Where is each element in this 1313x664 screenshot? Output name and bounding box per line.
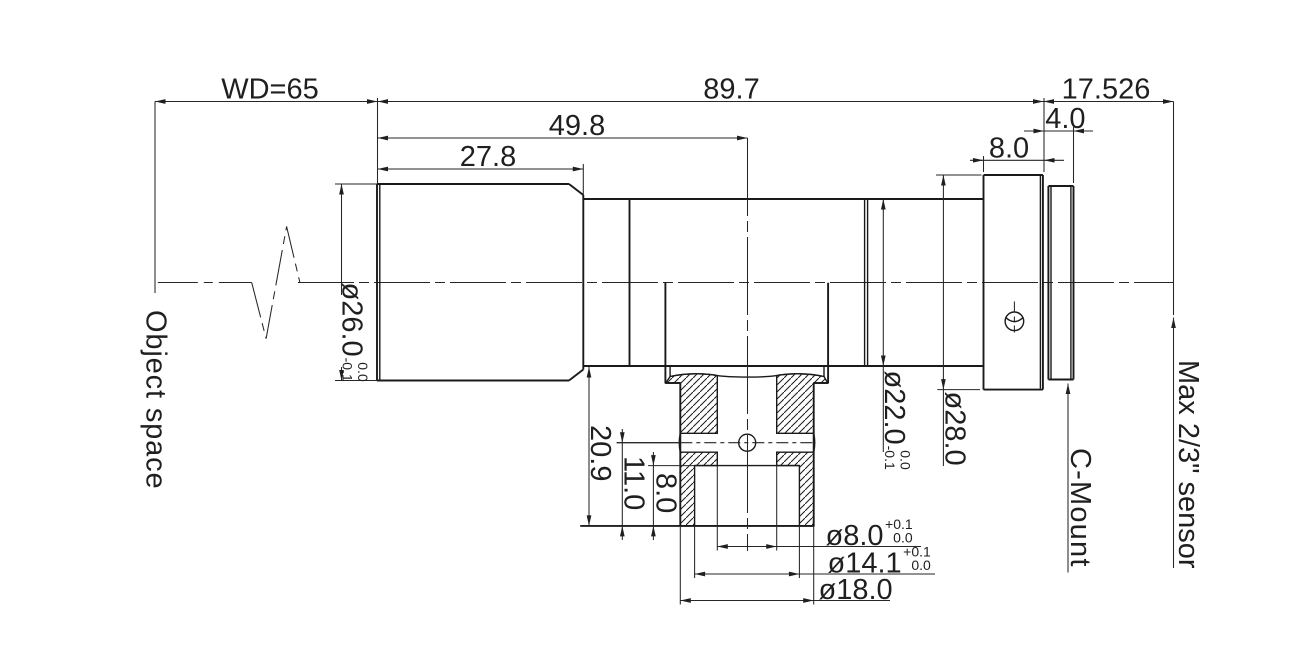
svg-text:20.9: 20.9 bbox=[584, 425, 616, 481]
svg-text:ø22.00.0-0.1: ø22.00.0-0.1 bbox=[878, 371, 914, 470]
svg-text:4.0: 4.0 bbox=[1045, 103, 1085, 135]
cross hole bores in boss bbox=[679, 433, 815, 452]
main tube bbox=[583, 199, 983, 366]
svg-text:ø18.0: ø18.0 bbox=[819, 574, 893, 606]
boss vertical centerline bbox=[747, 138, 749, 551]
svg-text:49.8: 49.8 bbox=[549, 110, 605, 142]
dimension 49.8 bbox=[378, 110, 748, 142]
Max 2/3 sensor leader arrow bbox=[1171, 318, 1176, 329]
dimension dia 18.0 bbox=[680, 574, 892, 606]
boss intersection curve bbox=[670, 374, 824, 377]
cross hole axis bbox=[617, 442, 814, 444]
svg-text:11.0: 11.0 bbox=[618, 456, 650, 510]
svg-text:Object space: Object space bbox=[140, 310, 172, 489]
dimension 11.0 bbox=[617, 429, 680, 540]
dimension 89.7 bbox=[378, 74, 1044, 106]
extension line flange face bbox=[1043, 98, 1045, 172]
svg-text:89.7: 89.7 bbox=[703, 74, 759, 106]
extension line front face bbox=[377, 98, 379, 184]
dimension 4.0 bbox=[1024, 103, 1093, 135]
svg-text:17.526: 17.526 bbox=[1062, 74, 1151, 106]
lower boss section: silhouette bbox=[580, 283, 828, 526]
svg-text:8.0: 8.0 bbox=[989, 132, 1029, 164]
extension lines below boss bbox=[680, 466, 813, 605]
object plane line bbox=[154, 102, 156, 294]
svg-text:ø26.00.0-0.1: ø26.00.0-0.1 bbox=[336, 283, 372, 382]
C-mount flange bbox=[984, 175, 1043, 390]
svg-text:ø28.0: ø28.0 bbox=[939, 392, 971, 466]
counterbore shoulder line bbox=[695, 465, 800, 467]
dimension 17.526 bbox=[1044, 74, 1174, 106]
boss hatched walls bbox=[666, 374, 828, 526]
dimension dia 26 bbox=[335, 184, 377, 382]
C-mount thread ring bbox=[1048, 186, 1073, 380]
dimension 20.9 bbox=[580, 367, 678, 526]
dimension dia 28 bbox=[936, 175, 982, 466]
svg-text:Max 2/3" sensor: Max 2/3" sensor bbox=[1172, 360, 1204, 569]
dimension dia 8.0 bbox=[717, 516, 921, 552]
dimension 8.0 counterbore depth bbox=[648, 452, 695, 540]
sensor image plane line bbox=[1173, 102, 1175, 316]
dimension dia 14.1 bbox=[695, 544, 935, 580]
optical axis centerline bbox=[158, 282, 1174, 284]
axis break symbol bbox=[252, 227, 300, 339]
extension line barrel end bbox=[582, 164, 584, 195]
svg-text:C-Mount: C-Mount bbox=[1064, 448, 1096, 568]
set screw on flange bbox=[1005, 302, 1024, 333]
dimension WD=65 bbox=[155, 74, 378, 106]
cross hole center mark circle bbox=[739, 434, 756, 451]
svg-text:WD=65: WD=65 bbox=[221, 74, 319, 106]
dimension 27.8 bbox=[378, 141, 584, 173]
dimension 8.0 flange bbox=[970, 132, 1064, 164]
dimension dia 22 bbox=[878, 199, 914, 470]
svg-text:8.0: 8.0 bbox=[650, 473, 682, 513]
svg-text:27.8: 27.8 bbox=[460, 141, 516, 173]
extension line ring right bbox=[1073, 127, 1075, 183]
C-Mount leader arrow bbox=[1066, 384, 1071, 395]
front barrel body bbox=[377, 184, 583, 381]
extension line flange left bbox=[983, 156, 985, 172]
